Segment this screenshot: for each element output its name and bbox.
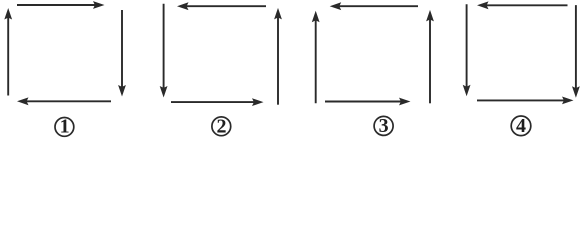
wire right edge up arrow bbox=[277, 17, 279, 105]
arrowhead sq3 bottom edge right bbox=[399, 98, 411, 106]
wire right edge down arrow bbox=[575, 5, 577, 89]
svg-text:2: 2 bbox=[217, 115, 227, 137]
label circle 3 bbox=[374, 116, 393, 135]
wire left edge down arrow bbox=[466, 4, 468, 87]
arrowhead sq3 top edge left bbox=[330, 2, 342, 10]
label circle 4 bbox=[511, 116, 531, 136]
arrowhead sq4 bottom edge right bbox=[562, 97, 574, 105]
wire top edge left arrow bbox=[486, 4, 568, 6]
arrowhead sq4 right edge down bbox=[572, 86, 580, 98]
wire right edge up arrow bbox=[429, 19, 431, 103]
svg-text:3: 3 bbox=[379, 115, 389, 137]
arrowhead sq1 top edge right bbox=[93, 1, 105, 9]
arrowhead sq2 right edge up bbox=[274, 8, 282, 20]
arrowhead sq1 left edge up bbox=[4, 8, 12, 20]
arrowhead sq2 left edge down bbox=[160, 86, 168, 98]
arrowhead sq1 right edge down bbox=[118, 85, 126, 97]
wire bottom edge right arrow bbox=[477, 99, 565, 101]
arrowhead sq2 top edge left bbox=[177, 2, 189, 10]
arrowhead sq4 left edge down bbox=[463, 85, 471, 97]
wire bottom edge right arrow bbox=[325, 101, 402, 103]
arrowhead sq3 left edge up bbox=[312, 11, 320, 22]
svg-text:4: 4 bbox=[516, 115, 526, 137]
arrowhead sq1 bottom edge left bbox=[17, 97, 29, 105]
arrowhead sq2 bottom edge right bbox=[252, 98, 264, 106]
arrowhead sq3 right edge up bbox=[426, 10, 434, 22]
wire bottom edge left arrow bbox=[26, 100, 111, 102]
wire right edge down arrow bbox=[121, 10, 123, 88]
arrowhead sq4 top edge left bbox=[477, 1, 489, 9]
wire top edge left arrow bbox=[339, 5, 418, 7]
label circle 1 bbox=[55, 118, 74, 137]
wire top edge left arrow bbox=[186, 5, 266, 7]
wire top edge right arrow bbox=[17, 4, 95, 6]
label circle 2 bbox=[212, 117, 231, 136]
wire left edge down arrow bbox=[163, 4, 165, 89]
wire left edge up arrow bbox=[7, 17, 9, 96]
wire bottom edge right arrow bbox=[171, 101, 255, 103]
wire left edge up arrow bbox=[315, 20, 317, 104]
svg-text:1: 1 bbox=[60, 115, 70, 137]
